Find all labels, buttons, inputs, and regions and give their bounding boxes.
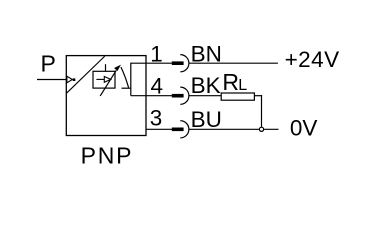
svg-text:BU: BU — [191, 107, 222, 132]
svg-text:3: 3 — [150, 105, 163, 130]
svg-text:+24V: +24V — [285, 47, 340, 72]
socket arc 1 — [180, 55, 189, 72]
connector pin 4 — [172, 94, 184, 98]
wire line 3 (BU) — [146, 128, 172, 130]
svg-text:BK: BK — [191, 73, 221, 98]
switch lever — [121, 67, 129, 88]
wire resistor to corner — [254, 95, 262, 97]
resistor RL — [221, 93, 254, 100]
setpoint adjust arrow — [100, 66, 120, 96]
svg-text:BN: BN — [191, 41, 222, 66]
wire P input — [37, 79, 66, 81]
junction node — [259, 127, 263, 131]
input arrowhead — [67, 76, 72, 83]
proximity divider line — [66, 56, 104, 93]
output bracket wire — [130, 63, 132, 96]
sensing element arrow — [96, 77, 110, 83]
svg-text:PNP: PNP — [81, 142, 134, 168]
svg-text:0V: 0V — [290, 115, 318, 140]
wire drop to 0V rail — [261, 95, 263, 128]
wire line 1 (BN) — [131, 62, 172, 64]
sensing element rect — [93, 71, 115, 88]
svg-text:1: 1 — [150, 41, 163, 66]
socket arc 4 — [180, 87, 189, 104]
svg-text:L: L — [238, 77, 247, 94]
element top tick — [105, 64, 107, 71]
svg-text:P: P — [41, 50, 56, 76]
switch contact bar — [122, 87, 132, 89]
connector pin 3 — [172, 128, 184, 132]
socket arc 3 — [180, 121, 189, 138]
wire line 4 (BK) — [131, 95, 172, 97]
node at arrow tip — [73, 78, 76, 81]
sensor body box U1 — [66, 56, 146, 136]
svg-text:R: R — [222, 69, 239, 95]
svg-text:4: 4 — [151, 73, 164, 98]
connector pin 1 — [172, 61, 184, 65]
